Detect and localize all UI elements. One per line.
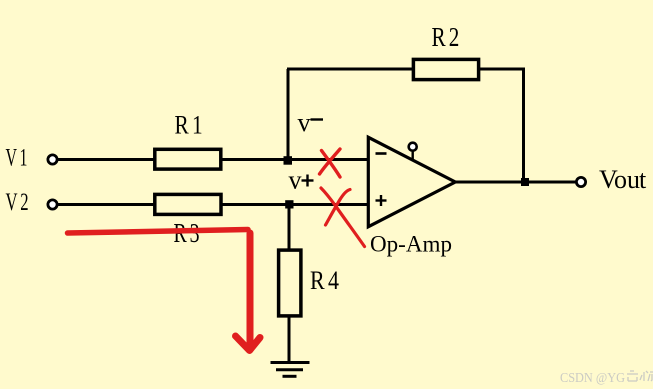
wire op-amp output (455, 181, 577, 184)
terminal V2 (48, 200, 57, 209)
wire V2 input to op-amp non-inverting input (58, 203, 368, 206)
svg-text:R4: R4 (310, 266, 342, 295)
node non-inverting input junction (285, 200, 293, 208)
wire feedback top-left (287, 68, 414, 71)
annotation red arrow (68, 230, 261, 351)
resistor R4 (279, 250, 301, 316)
wire feedback down to output node (522, 68, 525, 183)
terminal V1 (48, 155, 57, 164)
svg-text:CSDN @YG: CSDN @YG (560, 370, 625, 385)
wire V1 input to op-amp inverting input (58, 158, 368, 161)
svg-text:R2: R2 (432, 22, 463, 52)
svg-text:R1: R1 (175, 111, 207, 140)
svg-text:v: v (289, 166, 302, 195)
resistor R1 (155, 149, 221, 169)
wire R4 to ground (288, 315, 291, 362)
node v- label (298, 108, 324, 137)
terminal Vout (576, 177, 585, 186)
wire feedback top-right (480, 68, 525, 71)
watermark CSDN (560, 370, 653, 385)
wire inverting node up to feedback (287, 69, 290, 160)
annotation red X on inverting input (320, 149, 341, 177)
op-amp U1 (368, 137, 455, 226)
svg-text:V1: V1 (6, 145, 30, 172)
svg-text:Vout: Vout (599, 165, 647, 194)
svg-text:V2: V2 (6, 189, 32, 216)
node inverting input junction (284, 156, 293, 165)
ground (271, 363, 310, 377)
resistor R3 (155, 194, 221, 214)
node v+ label (289, 166, 314, 195)
node output junction (521, 178, 529, 186)
wire non-inverting node down to R4 (288, 205, 291, 252)
annotation red X on non-inverting input with line to Op-Amp (321, 188, 365, 247)
svg-text:v: v (298, 108, 311, 137)
resistor R2 (413, 59, 478, 79)
svg-text:Op-Amp: Op-Amp (370, 232, 452, 257)
